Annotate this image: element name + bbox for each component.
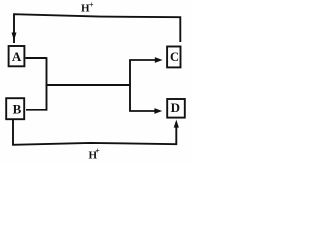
wire A right to riser <box>26 57 47 59</box>
box D <box>167 99 185 118</box>
svg-text:D: D <box>171 100 180 115</box>
label H+ bottom <box>89 146 101 161</box>
label H+ top <box>81 1 94 15</box>
arrowhead into A top <box>12 33 17 41</box>
box C <box>167 47 180 68</box>
wire B right to riser <box>26 109 47 111</box>
svg-text:C: C <box>170 50 179 64</box>
wire left riser <box>46 57 48 110</box>
svg-text:B: B <box>13 102 22 117</box>
svg-text:A: A <box>12 49 22 64</box>
svg-text:+: + <box>95 146 100 155</box>
wire arrow into D <box>129 110 156 112</box>
wire main horizontal <box>46 84 130 86</box>
box A <box>9 46 25 66</box>
wire top rail <box>14 14 180 43</box>
arrowhead into D bottom <box>174 120 179 128</box>
wire right riser <box>129 60 131 111</box>
svg-text:+: + <box>89 1 94 10</box>
box B <box>6 98 24 119</box>
wire arrow into C <box>129 59 156 61</box>
wire bottom rail <box>13 120 176 145</box>
